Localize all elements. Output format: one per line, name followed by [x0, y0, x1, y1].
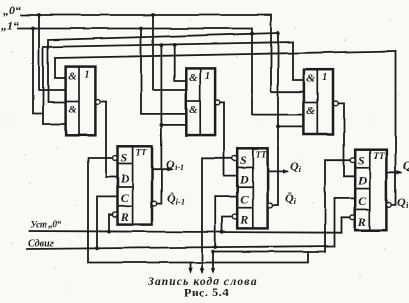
svg-text:R: R [357, 215, 366, 229]
wire h_a right end into gate D3 in1 [293, 42, 304, 80]
svg-text:C: C [358, 194, 367, 208]
wire bus Уст 0 [29, 231, 342, 233]
wire bus Сдвиг [27, 246, 335, 249]
svg-text:R: R [239, 213, 248, 227]
wire feedback Q̄1 horizontal h_a, left end to gate D1 in4 [43, 42, 293, 124]
wire Q̄2 output stub and feedback vertical [268, 33, 278, 205]
Q̄2 output bubble [268, 203, 273, 208]
node dot Q̄2 branch in4 [276, 125, 280, 129]
gate D3 output inversion bubble [333, 101, 338, 106]
S1 input bubble [113, 156, 118, 161]
svg-text:&: & [189, 72, 198, 84]
wire feedback Q̄2 horizontal h0 to gate D1 in3 [48, 33, 278, 102]
wire S3 stub [344, 159, 355, 161]
wire Q1 output with arrow [152, 168, 171, 170]
wire write line 1: S1 node to bottom bus4 and connector [88, 158, 308, 263]
svg-text:Уст „0“: Уст „0“ [30, 220, 62, 231]
flip-flop T3 [355, 150, 386, 231]
svg-text:1: 1 [85, 70, 90, 81]
wire net "0" branch to gate D2 in2 [153, 15, 186, 90]
svg-text:Рис. 5.4: Рис. 5.4 [184, 286, 229, 300]
R1 input bubble [113, 212, 118, 217]
S3 input bubble [350, 158, 355, 163]
wire write line 3: S3 node to bus X and down arrow [213, 160, 344, 271]
node dot R1 on bus [107, 230, 111, 234]
wire net "1" branch to gate D1 [33, 29, 43, 114]
svg-text:S: S [358, 154, 365, 168]
svg-text:&: & [68, 104, 77, 116]
wire Q̄3 feedback vertical [386, 51, 395, 205]
svg-text:S: S [240, 153, 247, 167]
svg-text:C: C [121, 191, 130, 205]
R3 input bubble [350, 215, 355, 220]
arrowhead write A1 down [188, 268, 192, 274]
svg-text:Q: Q [403, 158, 409, 172]
arrowhead write A2 down [200, 268, 204, 274]
node dot net0/gate2 [151, 13, 155, 17]
svg-text:1: 1 [205, 71, 210, 82]
wire S1 stub [106, 157, 118, 159]
wire feedback Q̄3 horizontal h_b, left end to gate D1 in1 [55, 51, 396, 78]
gate D2 output inversion bubble [215, 100, 220, 105]
flip-flop T1 [118, 146, 153, 224]
wire write arrow A1 from bus4 [189, 263, 191, 271]
node dot C1 on bus [95, 246, 99, 250]
R2 input bubble [232, 215, 237, 220]
gate D1 (AND-OR-INVERT) [66, 67, 96, 136]
node dot Q̄1 joins h_a [160, 43, 164, 47]
wire net "1" branch to gate D2 in3 [141, 29, 186, 114]
svg-text:&: & [68, 71, 77, 83]
flip-flop T2 [237, 148, 267, 228]
wire C1 input to shift bus [97, 196, 118, 247]
svg-text:„0“: „0“ [3, 3, 21, 17]
wire R3 input, right end of set0 bus [342, 217, 356, 232]
svg-text:&: & [307, 105, 316, 117]
svg-text:TT: TT [373, 151, 384, 161]
svg-text:D: D [120, 172, 130, 186]
wire Q2 output with arrow [268, 170, 287, 172]
wire R1 input to set0 bus [109, 214, 118, 232]
wire Q3 output with arrow [386, 171, 401, 173]
wire C3 input, right end of shift bus [335, 198, 356, 246]
gate D2 (AND-OR-INVERT) [186, 68, 215, 135]
wire Q̄1 branch to gate D2 in4 [161, 124, 186, 126]
gate D3 (AND-OR-INVERT) [304, 69, 333, 134]
wire net "0" top bus [21, 15, 304, 92]
node dot h_a branch gate2 [173, 43, 177, 47]
node dot net0/gate1 [37, 13, 41, 17]
arrowhead Q2 [283, 169, 289, 173]
node dot net1 crossing h0 [250, 32, 254, 36]
gate D1 output inversion bubble [96, 99, 101, 104]
node dot Q̄1 branch in4 [160, 123, 164, 127]
arrowhead write A3 down [211, 268, 215, 274]
arrowhead Q1 [167, 167, 173, 171]
node dot busX corner A3 [211, 250, 215, 254]
wire Q̄2 branch to gate D3 in4 [278, 125, 304, 127]
wire h_a branch to gate D2 in1 [175, 45, 187, 81]
wire R2 input to set0 bus [222, 217, 237, 232]
arrowhead Q3 [397, 170, 403, 174]
node dot Q̄2 joins h0 [276, 31, 280, 35]
svg-text:D: D [239, 173, 249, 187]
node dot net1/gate1 [31, 27, 35, 31]
svg-text:TT: TT [136, 148, 147, 158]
wire Q̄1 output stub and feedback vertical [152, 45, 161, 203]
wire gate D2 output to S and D of flip-flop T2 [215, 102, 237, 176]
wire gate D1 output to S and D of flip-flop T1 [95, 102, 117, 178]
svg-text:TT: TT [256, 150, 267, 160]
wire net "0" branch to gate D1 in2 [39, 15, 66, 90]
svg-text:D: D [357, 174, 367, 188]
Q̄3 output bubble [386, 203, 391, 208]
svg-text:&: & [307, 73, 316, 85]
node dot R2 on bus [220, 230, 224, 234]
wire C2 input to shift bus [215, 197, 237, 247]
svg-text:1: 1 [322, 72, 327, 83]
S2 input bubble [232, 156, 237, 161]
wire write line 2: S2 node down to arrow [202, 158, 224, 271]
svg-text:„1“: „1“ [1, 19, 19, 33]
wire gate D3 output to S and D of flip-flop T3 [333, 103, 355, 176]
wire net "1" top bus [18, 29, 304, 115]
svg-text:R: R [120, 210, 129, 224]
svg-text:Сдвиг: Сдвиг [28, 239, 54, 250]
node dot net1/gate2 [139, 27, 143, 31]
svg-text:&: & [189, 104, 198, 116]
node dot C2 on bus [213, 245, 217, 249]
svg-text:C: C [240, 193, 249, 207]
Q̄1 output bubble [152, 201, 157, 206]
wire S2 stub [224, 157, 237, 159]
svg-text:S: S [121, 151, 128, 165]
